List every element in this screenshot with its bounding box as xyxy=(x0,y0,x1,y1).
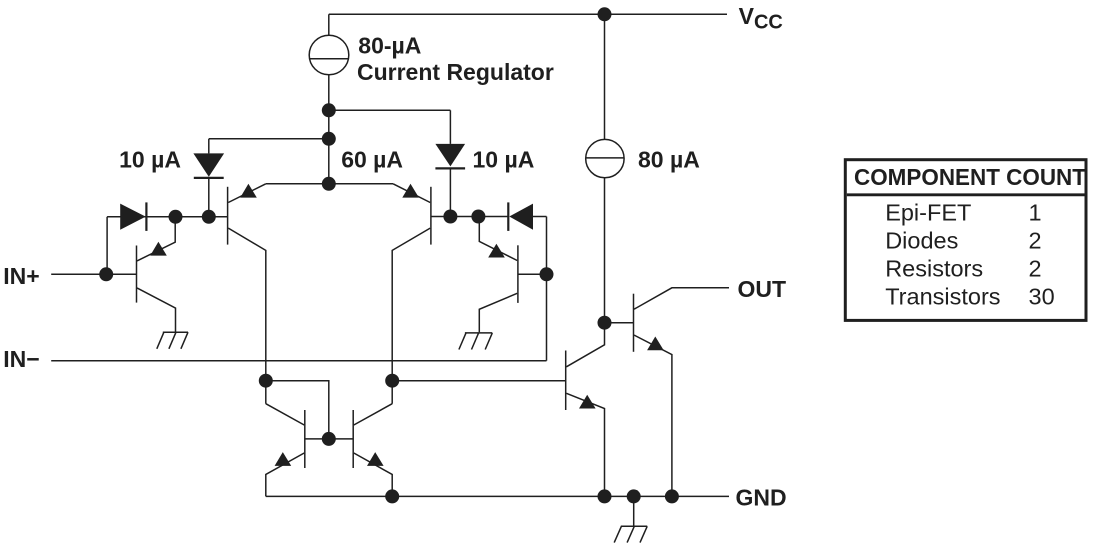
svg-text:80-µA: 80-µA xyxy=(358,32,421,58)
svg-text:Resistors: Resistors xyxy=(885,256,983,282)
svg-text:1: 1 xyxy=(1029,200,1042,226)
svg-text:2: 2 xyxy=(1029,256,1042,282)
svg-text:GND: GND xyxy=(736,485,787,511)
svg-text:VCC: VCC xyxy=(739,3,783,34)
svg-text:OUT: OUT xyxy=(738,276,787,302)
svg-text:IN+: IN+ xyxy=(3,263,39,289)
svg-text:Transistors: Transistors xyxy=(885,284,1000,310)
svg-text:Epi-FET: Epi-FET xyxy=(885,200,971,226)
svg-text:60 µA: 60 µA xyxy=(341,146,403,172)
svg-text:Diodes: Diodes xyxy=(885,228,958,254)
svg-text:10 µA: 10 µA xyxy=(119,146,181,172)
svg-text:COMPONENT COUNT: COMPONENT COUNT xyxy=(854,164,1086,190)
svg-text:Current Regulator: Current Regulator xyxy=(357,59,554,85)
svg-text:10 µA: 10 µA xyxy=(473,146,535,172)
svg-text:80 µA: 80 µA xyxy=(638,146,700,172)
svg-text:IN−: IN− xyxy=(3,346,39,372)
svg-text:30: 30 xyxy=(1029,284,1055,310)
svg-text:2: 2 xyxy=(1029,228,1042,254)
